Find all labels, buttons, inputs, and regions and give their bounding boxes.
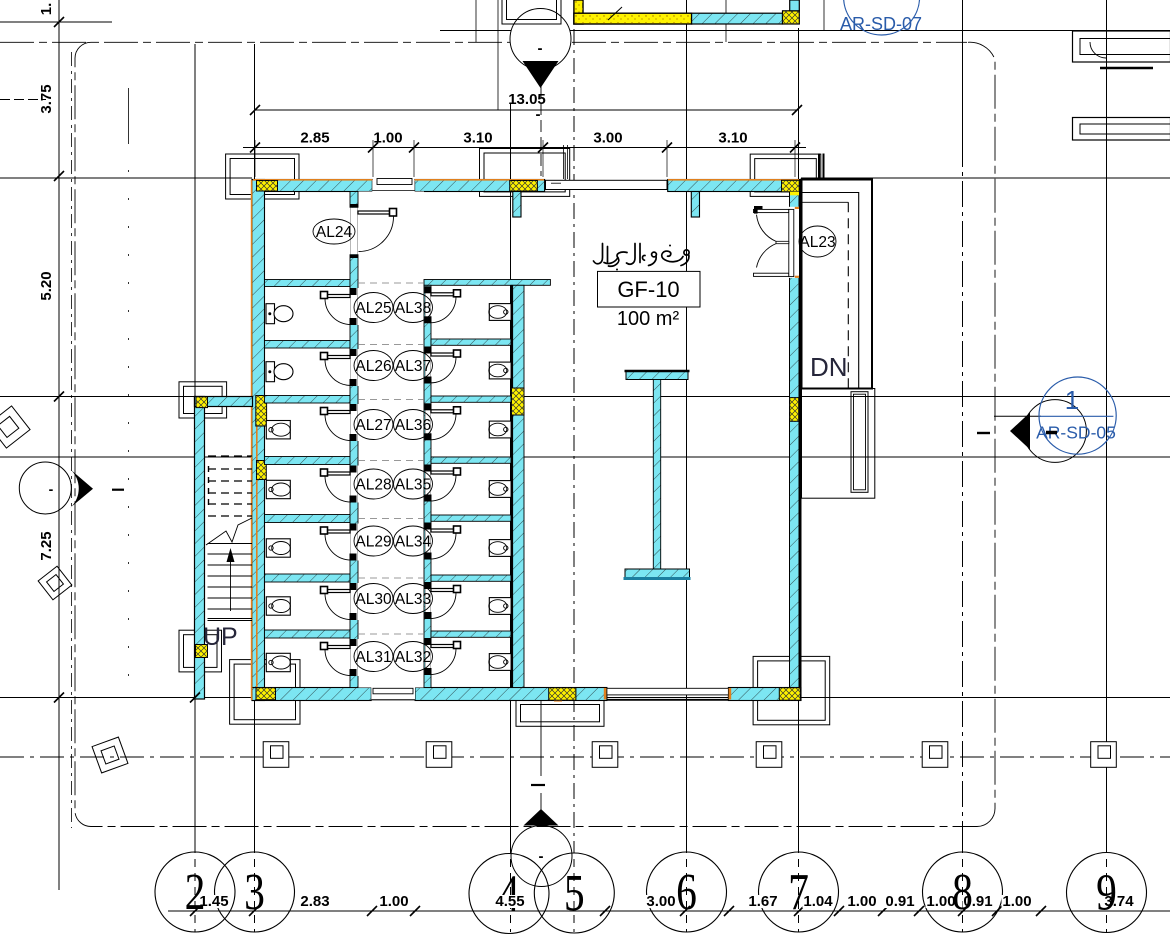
- column symbol diamond 1: [0, 406, 30, 448]
- svg-text:3.10: 3.10: [463, 130, 492, 147]
- door AL29: [323, 530, 351, 533]
- svg-text:6: 6: [676, 864, 697, 921]
- squat pan AL36 fixture: [489, 421, 511, 438]
- corridor dashed thresholds: [358, 282, 424, 284]
- node : left small line stubs: [0, 21, 112, 23]
- DN enclosure outer wall: [802, 180, 873, 389]
- svg-text:1.00: 1.00: [379, 893, 408, 910]
- squat pan AL29 fixture: [266, 539, 290, 557]
- door AL31: [323, 646, 351, 649]
- stair yellow corner bottom: [196, 645, 208, 658]
- grid bubble 4: [469, 854, 549, 934]
- node AL27 label: [354, 410, 393, 440]
- node AL29 label: [354, 526, 393, 556]
- I-beam column web: [653, 380, 660, 570]
- column symbol at x=935: [922, 742, 948, 768]
- partition left row6: [265, 574, 351, 582]
- svg-text:1.67: 1.67: [748, 893, 777, 910]
- dimension line 13.05: [255, 109, 797, 111]
- svg-text:1.00: 1.00: [926, 893, 955, 910]
- column wrap top-right: [750, 154, 821, 196]
- corridor partition right: [424, 285, 431, 687]
- column symbol at x=276: [263, 742, 289, 768]
- node AL31 label: [354, 642, 393, 672]
- node AL28 label: [354, 469, 393, 499]
- wire : vertical grid line 3: [254, 44, 256, 845]
- svg-text:'' ''': '' ''': [663, 0, 682, 8]
- svg-text:3.10: 3.10: [718, 130, 747, 147]
- grid bubble digit 4: [499, 865, 520, 922]
- svg-text:7: 7: [788, 864, 809, 921]
- column symbol diamond 3: [92, 737, 128, 773]
- svg-text:2.83: 2.83: [300, 893, 329, 910]
- svg-text:-: -: [538, 40, 543, 57]
- stair dashed treads (upper flight): [208, 455, 252, 457]
- column wrap bottom-mid: [516, 700, 604, 726]
- top building corner yellow: [783, 11, 800, 24]
- svg-text:1: 1: [1065, 385, 1079, 415]
- callout 1/AR-SD-05: [994, 415, 1041, 417]
- wall right door opening AL23: [789, 207, 800, 278]
- wall top opening window: [546, 180, 668, 189]
- dimension line top segments: [243, 147, 806, 149]
- door AL28: [323, 472, 351, 475]
- svg-text:GF-10: GF-10: [617, 277, 679, 302]
- column wrap topbuilding-left: [502, 0, 561, 24]
- svg-text:AL33: AL33: [395, 591, 431, 608]
- DN enclosure inner wall line: [802, 193, 859, 388]
- wall exterior top segment B: [415, 180, 545, 192]
- svg-text:2: 2: [185, 864, 206, 921]
- top building rotation tick: [608, 7, 622, 20]
- column wrap top-left: [226, 154, 299, 199]
- svg-text:9: 9: [1096, 864, 1117, 921]
- I-beam column bottom flange: [625, 569, 690, 579]
- svg-text:3: 3: [244, 864, 265, 921]
- door AL26: [323, 356, 351, 359]
- wall block yellow right grid: [790, 398, 799, 422]
- wire : small verticals top: [475, 0, 477, 42]
- partition right row7: [431, 631, 511, 637]
- right stall wall: [511, 285, 524, 687]
- svg-text:AL27: AL27: [355, 417, 391, 434]
- node AL25 label: [354, 293, 393, 323]
- svg-text:AL38: AL38: [395, 300, 431, 317]
- svg-text:AL29: AL29: [355, 534, 391, 551]
- section marker bottom: [511, 826, 572, 887]
- svg-text:8: 8: [952, 864, 973, 921]
- squat pan AL31 fixture: [266, 653, 290, 671]
- svg-text:AL28: AL28: [355, 477, 391, 494]
- door AL24: [350, 204, 358, 208]
- grid bubble digit 5: [564, 865, 585, 922]
- wire : horizontal grid line A (y=178): [0, 177, 252, 179]
- wall block yellow left wall lower: [257, 461, 267, 480]
- orange accent top wall: [253, 179, 799, 181]
- door AL37: [431, 353, 459, 356]
- wall block yellow left wall upper: [256, 396, 267, 427]
- wall block yellow bottom-right corner: [779, 688, 800, 701]
- grid bubble digit 6: [676, 864, 697, 921]
- partition left row3: [265, 396, 351, 404]
- wall block yellow top-left corner: [257, 181, 278, 192]
- dimension line bottom: [168, 910, 1170, 912]
- wall block yellow bottom-left corner: [256, 688, 276, 700]
- grid bubble digit 2: [185, 864, 206, 921]
- wall exterior left: [252, 180, 265, 701]
- wire : horizontal grid line C (y=457): [0, 456, 1170, 458]
- wing stub grid6: [691, 192, 699, 218]
- grid bubble 5: [534, 853, 614, 933]
- partition left row1: [265, 280, 351, 287]
- wall block yellow top-right corner: [782, 180, 800, 192]
- partition left row4: [265, 457, 351, 465]
- grid bubble 8: [923, 852, 1003, 932]
- squat pan AL34 fixture: [489, 540, 511, 557]
- node AL34 label: [394, 526, 433, 556]
- right block top wall: [424, 280, 550, 286]
- wire : horizontal grid line B (y=396.5): [0, 396, 1170, 398]
- node AL33 label: [394, 584, 433, 614]
- stair center line with arrow: [230, 556, 232, 611]
- svg-text:AL36: AL36: [395, 417, 431, 434]
- svg-text:AL26: AL26: [355, 358, 391, 375]
- DN enclosure dashed rail: [802, 201, 849, 203]
- section marker top: [510, 9, 571, 70]
- svg-text:AL23: AL23: [799, 234, 835, 251]
- svg-text:1.00: 1.00: [373, 130, 402, 147]
- structure top-right thick line: [1100, 67, 1153, 69]
- wire : vertical grid line 6: [686, 0, 688, 845]
- wall right thick edge: [799, 180, 801, 701]
- column symbol at x=605: [592, 742, 618, 768]
- partition left row5: [265, 515, 351, 523]
- callout AR-SD-07: [844, 0, 920, 35]
- wall exterior bottom segment C: [728, 688, 801, 701]
- svg-text:AL24: AL24: [316, 224, 353, 241]
- top building wall yellow vertical: [574, 0, 583, 24]
- wall exterior bottom segment A: [252, 688, 371, 701]
- wall exterior top segment C: [668, 180, 801, 192]
- squat pan AL33 fixture: [489, 598, 511, 615]
- wire : vertical grid line 2: [194, 44, 196, 845]
- partition left row2: [265, 341, 351, 349]
- right stall wall thick edge: [511, 285, 513, 687]
- structure top-right band2: [1073, 118, 1170, 141]
- partition right row3: [431, 396, 511, 402]
- room label Arabic (vector strokes): [594, 244, 690, 271]
- stair solid treads: [208, 543, 253, 545]
- partition left row7: [265, 630, 351, 638]
- stair enclosure top wall: [195, 397, 253, 407]
- stair flight edge: [208, 620, 253, 622]
- stair break line: [206, 518, 252, 545]
- svg-text:DN: DN: [810, 352, 848, 382]
- svg-text:AL37: AL37: [395, 358, 431, 375]
- wall exterior right: [790, 180, 800, 701]
- DN landing outer: [802, 389, 875, 499]
- grid bubble digit 7: [788, 864, 809, 921]
- node AL36 label: [394, 410, 433, 440]
- grid bubble 7: [759, 852, 839, 932]
- wall block yellow bottom grid5: [549, 688, 576, 701]
- DN landing inner double rect: [851, 392, 868, 493]
- wire : top road line: [440, 30, 1170, 32]
- partition right row4: [431, 457, 511, 463]
- grid bubble digit 8: [952, 864, 973, 921]
- node AL26 label: [354, 351, 393, 381]
- top building wall cyan: [692, 13, 783, 24]
- svg-text:100 m²: 100 m²: [617, 308, 680, 330]
- stair yellow corner top: [196, 397, 208, 408]
- svg-text:3.75: 3.75: [38, 84, 55, 113]
- column wrap bottom-left: [230, 660, 300, 725]
- wire : horizontal grid line E (y=757 dash-dot): [0, 756, 1170, 758]
- wall top door gap: [372, 180, 414, 192]
- structure top-right band1: [1073, 31, 1170, 62]
- svg-text:5: 5: [564, 865, 585, 922]
- column wrap top-mid: [480, 149, 570, 197]
- svg-text:-: -: [49, 481, 54, 497]
- grid bubble digit 9: [1096, 864, 1117, 921]
- wire : property boundary rounded rect (dashed): [0, 42, 995, 826]
- wire : dash-dot line x=71.5: [71, 52, 73, 828]
- column symbol at x=769: [756, 742, 782, 768]
- wire : vertical grid line 4: [510, 104, 512, 845]
- node AL38 label: [394, 293, 433, 323]
- squat pan AL27 fixture: [266, 421, 290, 439]
- svg-text:AL31: AL31: [355, 649, 391, 666]
- wire : vertical grid line 5: [573, 0, 575, 845]
- node AL30 label: [354, 584, 393, 614]
- svg-text:-: -: [536, 106, 541, 123]
- door AL25: [323, 295, 351, 298]
- squat pan AL38 fixture: [489, 304, 511, 321]
- toilet AL26 fixture: [266, 362, 275, 382]
- wire : left dimension line x=59: [58, 0, 60, 890]
- svg-text:AL34: AL34: [395, 534, 432, 551]
- column symbol at x=1103.5: [1091, 742, 1117, 768]
- squat pan AL37 fixture: [489, 362, 511, 379]
- grid bubble 6: [647, 852, 727, 932]
- orange jamb slivers bottom opening: [604, 688, 607, 700]
- grid bubble 9: [1067, 853, 1147, 933]
- grid bubble digit 3: [244, 864, 265, 921]
- stair dashed rail: [208, 466, 210, 508]
- svg-text:AR-SD-07: AR-SD-07: [840, 14, 922, 34]
- partition right row2: [431, 339, 511, 345]
- corridor partition left: [350, 192, 358, 688]
- wall exterior top segment A: [252, 180, 372, 192]
- door AL32: [431, 645, 459, 648]
- grid bubble 2: [155, 852, 235, 932]
- toilet AL25 fixture: [266, 304, 275, 324]
- door AL34: [431, 529, 459, 532]
- stair enclosure left wall: [195, 397, 205, 700]
- section marker left: [19, 462, 71, 514]
- wire : vertical grid line 7: [798, 28, 800, 845]
- node AL24 label: [313, 219, 355, 244]
- column wrap bottom-right: [753, 656, 830, 724]
- wall exterior bottom segment B: [415, 688, 607, 701]
- squat pan AL32 fixture: [489, 654, 511, 671]
- squat pan AL35 fixture: [489, 481, 511, 498]
- svg-text:-: -: [539, 848, 544, 865]
- svg-text:3.00: 3.00: [593, 130, 622, 147]
- wire : section line x=541: [540, 86, 542, 176]
- svg-text:AL35: AL35: [395, 477, 431, 494]
- svg-text:AL30: AL30: [355, 591, 392, 608]
- right stall wall yellow block: [512, 388, 525, 415]
- column symbol diamond 2: [38, 566, 72, 600]
- squat pan AL30 fixture: [266, 597, 290, 615]
- node AL37 label: [394, 351, 433, 381]
- wall block yellow top grid4: [510, 181, 538, 192]
- wall bottom door gap (corridor): [371, 688, 415, 701]
- door AL38: [431, 293, 459, 296]
- column wrap stair-bottom: [179, 630, 222, 672]
- door AL35: [431, 471, 459, 474]
- orange accent left wall: [251, 180, 253, 700]
- svg-text:UP: UP: [203, 623, 238, 651]
- svg-text:1.00: 1.00: [847, 893, 876, 910]
- room tag GF-10 box: [598, 271, 701, 307]
- wall bottom opening window: [607, 688, 729, 695]
- squat pan AL28 fixture: [266, 480, 290, 498]
- dimension texts bottom: [199, 895, 230, 908]
- orange accent stair side of left wall: [256, 397, 258, 687]
- svg-text:4.55: 4.55: [495, 893, 524, 910]
- door AL27: [323, 411, 351, 414]
- wire : vertical grid line 9: [1106, 0, 1108, 845]
- corridor interior: [358, 192, 424, 688]
- wire : vertical grid line 8: [962, 141, 964, 845]
- partition right row5: [431, 515, 511, 521]
- column symbol at x=439: [426, 742, 452, 768]
- door AL33: [431, 589, 459, 592]
- door AL23 (double): [754, 209, 789, 212]
- dimension left column: [54, 17, 64, 27]
- svg-text:1.: 1.: [38, 3, 55, 16]
- wire : horizontal grid line D (y=697.5): [0, 697, 1170, 699]
- svg-text:7.25: 7.25: [38, 531, 55, 560]
- svg-text:3.00: 3.00: [646, 893, 675, 910]
- node AL32 label: [394, 642, 433, 672]
- column wrap stair-top: [179, 382, 227, 418]
- grid bubble 3: [215, 852, 295, 932]
- top building wall yellow horizontal: [574, 13, 692, 24]
- svg-text:AL32: AL32: [395, 649, 431, 666]
- node AL35 label: [394, 469, 433, 499]
- structure top-right arc: [1090, 42, 1106, 58]
- svg-text:1.00: 1.00: [1002, 893, 1031, 910]
- svg-text:0.91: 0.91: [885, 893, 914, 910]
- svg-text:2.85: 2.85: [300, 130, 329, 147]
- wing stub grid4: [513, 192, 521, 218]
- door AL30: [323, 590, 351, 593]
- I-beam column top flange: [626, 371, 688, 380]
- svg-text:AL25: AL25: [355, 300, 391, 317]
- partition right row6: [431, 575, 511, 581]
- door AL36: [431, 410, 459, 413]
- top building cyan stub up: [790, 0, 800, 11]
- svg-text:5.20: 5.20: [38, 271, 55, 300]
- node AL23 label: [799, 226, 836, 257]
- wire : faint line x=128.5: [128, 88, 130, 142]
